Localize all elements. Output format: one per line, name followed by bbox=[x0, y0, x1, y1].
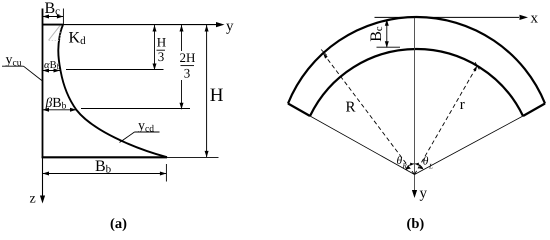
svg-text:R: R bbox=[402, 162, 408, 170]
Kd slope indicator triangle (light) bbox=[49, 26, 60, 41]
left vertical edge of section bbox=[42, 9, 44, 159]
svg-text:y: y bbox=[420, 186, 428, 202]
svg-text:x: x bbox=[531, 11, 539, 27]
z axis bbox=[42, 158, 44, 198]
left sector edge line bbox=[310, 116, 415, 175]
svg-text:Kd: Kd bbox=[69, 30, 87, 48]
section profile curve y(z) bbox=[58, 25, 167, 157]
y axis arrowhead (b) bbox=[412, 190, 417, 198]
2H/3 dimension line bbox=[181, 25, 183, 51]
Bc dimension extension lines bbox=[42, 9, 44, 23]
x axis (b) bbox=[375, 16, 520, 18]
bottom edge of section (thick) bbox=[42, 156, 167, 158]
svg-text:r: r bbox=[460, 97, 465, 113]
svg-text:(a): (a) bbox=[110, 216, 127, 232]
Bc dimension line (b) bbox=[386, 20, 388, 48]
svg-text:z: z bbox=[30, 192, 36, 207]
vertical center line / y axis of (b) bbox=[414, 17, 416, 193]
svg-text:3: 3 bbox=[158, 49, 165, 64]
Bb dimension line bbox=[43, 173, 167, 175]
beta level line (2H/3) bbox=[81, 108, 190, 110]
svg-text:R: R bbox=[346, 100, 356, 116]
H/3 dimension line bbox=[154, 25, 156, 70]
H dimension line bbox=[206, 25, 208, 157]
Bb dimension extension line bbox=[165, 164, 167, 182]
angle arc theta_R bbox=[406, 164, 414, 169]
svg-text:Bc: Bc bbox=[368, 26, 385, 42]
y axis arrowhead bbox=[216, 22, 225, 27]
label Bc (b, rotated) bbox=[368, 26, 385, 42]
bottom thin extension line bbox=[167, 156, 219, 158]
inner arc bbox=[310, 49, 523, 116]
r end tick bbox=[473, 66, 477, 72]
alpha level line (H/3) bbox=[66, 69, 164, 71]
svg-text:2H: 2H bbox=[180, 50, 196, 65]
dashed radius r bbox=[415, 66, 478, 175]
svg-text:θ: θ bbox=[423, 156, 429, 168]
svg-text:H: H bbox=[210, 85, 224, 106]
angle arc theta_r bbox=[415, 164, 423, 169]
svg-text:L: L bbox=[428, 162, 433, 170]
right sector edge line bbox=[415, 116, 524, 175]
Bc dimension line bbox=[43, 16, 64, 18]
Bc extension tick bottom bbox=[377, 46, 401, 48]
svg-text:Bb: Bb bbox=[95, 158, 112, 176]
left end cap bbox=[288, 104, 310, 117]
right end cap bbox=[523, 104, 545, 117]
svg-text:Bc: Bc bbox=[45, 0, 61, 18]
svg-text:Bb: Bb bbox=[52, 96, 66, 112]
svg-text:β: β bbox=[45, 95, 53, 110]
z axis arrowhead bbox=[40, 196, 45, 204]
dashed radius R bbox=[323, 53, 414, 174]
svg-text:y: y bbox=[226, 19, 234, 35]
y axis (top horizontal line) bbox=[43, 24, 222, 26]
svg-text:H: H bbox=[157, 35, 166, 50]
outer arc bbox=[288, 17, 545, 103]
R end tick bbox=[323, 53, 328, 58]
svg-text:(b): (b) bbox=[407, 216, 425, 232]
svg-text:3: 3 bbox=[184, 66, 191, 81]
